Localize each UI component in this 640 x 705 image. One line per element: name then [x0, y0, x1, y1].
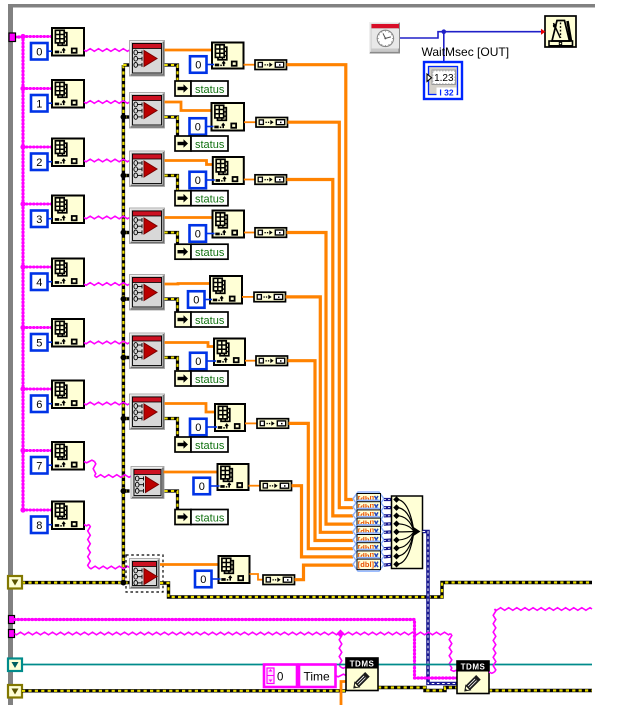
- wire: row 3 to converter: [287, 233, 354, 525]
- wire: bus branch row 0: [23, 36, 52, 38]
- string tunnel 2 (left): [9, 630, 15, 638]
- wire: ms wait value: [400, 32, 542, 38]
- wire: error subVI 0 to status: [165, 65, 182, 89]
- wire: index const row 3: [207, 233, 215, 235]
- TDMS write 2: [457, 661, 489, 694]
- wire: array row 6 to subVI: [84, 402, 130, 405]
- wire: index const row 1: [207, 126, 214, 128]
- index array R0: [212, 43, 244, 69]
- index constant 0 row 3: [190, 225, 207, 242]
- wire: bus branch row 3: [23, 203, 52, 205]
- status indicator row 6: [175, 437, 228, 452]
- wire: element row 7 to build array: [249, 485, 261, 487]
- index constant 0 row 0: [190, 56, 207, 73]
- error tunnel (left, row for S8 chain): [8, 576, 22, 589]
- index constant 0 row 7: [194, 478, 211, 495]
- svg-text:status: status: [195, 374, 225, 386]
- numeric constant 2: [31, 154, 48, 171]
- build array B5: [256, 356, 288, 366]
- wire: const 1 to index L1: [48, 102, 53, 104]
- wire: row 8 to converter: [295, 565, 354, 580]
- svg-text:WaitMsec [OUT]: WaitMsec [OUT]: [422, 45, 510, 59]
- to-dynamic-data converter 0: [353, 492, 384, 506]
- wire: data subVI 4 to index R4: [165, 282, 211, 285]
- wire: index const row 5: [207, 360, 216, 362]
- wire: converter 3 to merge: [384, 522, 392, 525]
- wire: array row 3 to subVI: [84, 216, 130, 219]
- wire: const 8 to index L8: [48, 524, 53, 526]
- wire: converter 1 to merge: [384, 506, 392, 509]
- wire: data subVI 2 to index R2: [165, 161, 213, 165]
- svg-text:[dbl]: [dbl]: [358, 560, 375, 569]
- teal file refnum tunnel (left): [8, 659, 22, 672]
- svg-text:TDMS: TDMS: [461, 663, 486, 672]
- wire: bus branch row 1: [23, 88, 52, 90]
- status indicator row 1: [175, 136, 228, 151]
- wire: error branch row 2: [123, 174, 129, 177]
- WaitMsec [OUT] indicator terminal: [424, 62, 462, 99]
- input tunnel (array of clusters): [9, 33, 16, 42]
- wire: bottom error chain: [22, 689, 346, 692]
- to-dynamic-data converter 2: [353, 508, 384, 522]
- numeric constant 3: [31, 211, 48, 228]
- status indicator row 3: [175, 244, 228, 259]
- wire: bus branch row 5: [23, 327, 52, 329]
- wire: error subVI 6 to status: [165, 419, 182, 445]
- build array B2: [255, 175, 287, 185]
- wire: const 6 to index L6: [48, 403, 53, 405]
- wire: error subVI 4 to status: [165, 299, 182, 320]
- svg-text:status: status: [195, 194, 225, 206]
- svg-text:status: status: [195, 315, 225, 327]
- to-dynamic-data converter 3: [353, 517, 384, 531]
- wire: error subVI 3 to status: [165, 233, 182, 252]
- wire: error subVI 2 to status: [165, 176, 182, 199]
- subVI S2: [130, 151, 165, 187]
- wire: converter 2 to merge: [384, 514, 392, 517]
- wire: row 0 to converter: [287, 65, 354, 500]
- subVI S5: [130, 333, 165, 369]
- wire: dynamic data to TDMS write 2: [423, 532, 458, 684]
- wire: element row 6 to build array: [245, 422, 257, 424]
- wire: const 3 to index L3: [48, 218, 53, 220]
- to-dynamic-data converter 8: [353, 558, 384, 572]
- wire: const 2 to index L2: [48, 161, 53, 163]
- wire: error branch row 4: [123, 297, 129, 300]
- wire: data subVI 3 to index R3: [165, 216, 213, 219]
- index array L1: [52, 80, 84, 108]
- svg-text:I 32: I 32: [439, 88, 453, 98]
- wait until next ms multiple VI: [545, 16, 576, 47]
- string constant Time: [299, 665, 336, 688]
- wire: error branch row 1: [123, 115, 129, 118]
- svg-text:0: 0: [195, 122, 201, 134]
- wire: error branch row 3: [123, 231, 129, 234]
- wire: data subVI 0 to index R0: [165, 49, 213, 52]
- wire: converter 4 to merge: [384, 530, 392, 534]
- wire: element row 5 to build array: [245, 360, 256, 362]
- wire: row 1 to converter: [288, 122, 354, 508]
- numeric constant 5: [31, 334, 48, 351]
- wire: array row 2 to subVI: [84, 159, 130, 162]
- status indicator row 0: [175, 81, 228, 96]
- wire: index const row 6: [207, 426, 217, 428]
- wait ms clock VI: [369, 22, 400, 54]
- wire: error subVI 5 to status: [165, 358, 182, 379]
- wire junction: [442, 29, 447, 34]
- svg-text:0: 0: [277, 672, 283, 684]
- structure frame left border: [8, 4, 13, 705]
- string tunnel 1 (left): [9, 616, 15, 624]
- wire: element row 0 to build array: [244, 64, 256, 66]
- wire: bus branch row 7: [23, 450, 52, 452]
- wire: bus branch row 2: [23, 146, 52, 148]
- status indicator row 5: [175, 371, 228, 386]
- subVI S6: [130, 394, 165, 430]
- wire: array row 0 to subVI: [84, 49, 130, 52]
- svg-text:5: 5: [36, 337, 42, 349]
- index array L6: [52, 381, 84, 409]
- index constant 0 row 8: [195, 571, 212, 588]
- to-dynamic-data converter 6: [353, 541, 384, 555]
- wire: index const row 0: [207, 64, 214, 66]
- wire: element row 2 to build array: [244, 179, 255, 181]
- wire: data subVI 7 to index R7: [164, 471, 218, 474]
- status indicator row 2: [175, 191, 228, 206]
- wire: array row 8 to subVI: [84, 525, 130, 569]
- svg-text:status: status: [195, 440, 225, 452]
- to-dynamic-data converter 7: [353, 549, 384, 563]
- wire: const 0 to index L0: [48, 50, 53, 52]
- wire: bus branch row 8: [23, 509, 52, 511]
- wire: bus branch row 4: [23, 266, 52, 268]
- to-dynamic-data converter 4: [353, 525, 384, 539]
- wire: data subVI 1 to index R1: [165, 102, 212, 111]
- index array R2: [213, 157, 244, 184]
- wire: group name string array: [15, 620, 458, 679]
- index array R4: [210, 276, 242, 304]
- wire: array row 4 to subVI: [84, 283, 130, 286]
- wire: index const row 2: [207, 179, 215, 181]
- svg-text:0: 0: [195, 422, 201, 434]
- wire: array row 7 to subVI: [84, 460, 131, 477]
- index constant 0 row 4: [188, 291, 205, 308]
- wire: error branch row 7: [123, 489, 129, 492]
- merge signals node: [392, 496, 423, 569]
- to-dynamic-data converter 5: [353, 533, 384, 547]
- status indicator row 7: [175, 510, 228, 525]
- build array B4: [254, 292, 286, 302]
- wire: const 5 to index L5: [48, 341, 53, 343]
- svg-text:7: 7: [36, 460, 42, 472]
- svg-text:0: 0: [195, 60, 201, 72]
- ring constant 0: [264, 665, 297, 688]
- index array R8: [219, 556, 250, 583]
- wire: element row 1 to build array: [244, 121, 256, 123]
- wire: error tunnel to subVI S8: [22, 581, 130, 584]
- index array L0: [52, 28, 84, 56]
- error tunnel (bottom left): [8, 685, 22, 698]
- wire: index const row 4: [205, 299, 212, 301]
- wire: bus branch row 6: [23, 388, 52, 390]
- build array B7: [260, 481, 292, 491]
- svg-text:8: 8: [36, 520, 42, 532]
- wire: converter 0 to merge: [384, 498, 392, 501]
- svg-text:0: 0: [36, 46, 42, 58]
- wire: const 4 to index L4: [48, 281, 53, 283]
- build array B1: [256, 118, 288, 128]
- wire: TDMS 2 output up and right: [489, 608, 592, 674]
- wire: pink array bus from input tunnel: [15, 37, 23, 510]
- numeric constant 1: [31, 95, 48, 112]
- svg-text:status: status: [195, 512, 225, 524]
- wire: converter 8 to merge: [384, 563, 392, 567]
- numeric constant 6: [31, 396, 48, 413]
- svg-text:3: 3: [36, 214, 42, 226]
- svg-text:Time: Time: [304, 670, 331, 684]
- subVI S4: [130, 275, 165, 311]
- index array L8: [52, 502, 84, 530]
- svg-text:4: 4: [36, 277, 42, 289]
- build array B0: [255, 60, 287, 70]
- wire: orange from below to TDMS write 1: [341, 682, 346, 705]
- wire: error subVI 1 to status: [165, 117, 182, 144]
- build array B6: [257, 419, 289, 429]
- wire: index const row 8: [212, 578, 221, 580]
- wire: converter 6 to merge: [384, 546, 392, 550]
- wire: converter 7 to merge: [384, 555, 392, 559]
- wire: element row 8 to build array: [250, 574, 264, 580]
- wire: element row 3 to build array: [244, 232, 255, 234]
- wire: row 5 to converter: [288, 361, 354, 541]
- wire: data subVI 6 to index R6: [165, 404, 216, 413]
- index array L2: [52, 139, 84, 167]
- svg-text:0: 0: [199, 481, 205, 493]
- index array R1: [212, 103, 245, 131]
- wire: row 4 to converter: [286, 297, 354, 532]
- svg-text:6: 6: [36, 399, 42, 411]
- build array B8: [263, 575, 295, 585]
- wire: string to TDMS writes: [15, 632, 458, 671]
- index constant 0 row 6: [190, 419, 207, 436]
- svg-text:TDMS: TDMS: [350, 660, 375, 669]
- wire: error branch row 6: [123, 417, 129, 420]
- wire: error S8 out: [160, 583, 592, 598]
- svg-text:0: 0: [195, 175, 201, 187]
- svg-text:2: 2: [36, 157, 42, 169]
- subVI S7: [131, 467, 164, 499]
- wire: const 7 to index L7: [48, 464, 53, 466]
- structure frame top border: [8, 4, 595, 8]
- wire: Time to TDMS write 1: [336, 674, 347, 677]
- index array L4: [52, 259, 84, 287]
- subVI S0: [130, 41, 165, 77]
- wire: error subVI 7 to status: [165, 491, 182, 517]
- svg-text:0: 0: [195, 229, 201, 241]
- to-dynamic-data converter 1: [353, 500, 384, 514]
- wire: element row 4 to build array: [242, 296, 254, 298]
- wire: array row 1 to subVI: [84, 101, 130, 104]
- wire: row 2 to converter: [287, 180, 354, 516]
- index array R7: [218, 464, 249, 490]
- red input arrow: [541, 29, 546, 35]
- svg-text:status: status: [195, 84, 225, 96]
- index constant 0 row 1: [190, 118, 207, 135]
- index array R3: [213, 211, 245, 238]
- status indicator row 4: [175, 312, 228, 327]
- wire: error branch row 0: [123, 63, 129, 66]
- index array R5: [214, 339, 245, 366]
- wire: error cluster bus vertical: [122, 65, 125, 583]
- index array R6: [215, 404, 245, 431]
- wire: array row 5 to subVI: [84, 341, 130, 344]
- wire: converter 5 to merge: [384, 538, 392, 542]
- numeric constant 8: [31, 517, 48, 534]
- svg-text:status: status: [195, 247, 225, 259]
- build array B3: [255, 228, 287, 238]
- wire: row 6 to converter: [289, 423, 354, 548]
- svg-text:1: 1: [36, 98, 42, 110]
- wire: row 7 to converter: [292, 486, 354, 557]
- numeric constant 4: [31, 274, 48, 291]
- wire: data subVI 5 to index R5: [165, 343, 215, 347]
- svg-text:status: status: [195, 139, 225, 151]
- index array L3: [52, 196, 84, 224]
- svg-text:0: 0: [200, 574, 206, 586]
- wire: TDMS file reference: [22, 664, 592, 666]
- numeric constant 7: [31, 457, 48, 474]
- svg-text:1.23: 1.23: [434, 73, 454, 84]
- wire: to WaitMsec indicator: [443, 32, 445, 62]
- wire: index const row 7: [211, 485, 220, 487]
- subVI S1: [130, 93, 165, 129]
- subVI S3: [130, 208, 165, 244]
- wire: error branch row 5: [123, 356, 129, 359]
- index array L5: [52, 319, 84, 347]
- index constant 0 row 5: [190, 353, 207, 370]
- TDMS write 1: [346, 658, 378, 691]
- subVI S8 (selected): [126, 555, 163, 592]
- svg-text:0: 0: [193, 295, 199, 307]
- svg-text:0: 0: [195, 356, 201, 368]
- index array L7: [52, 442, 84, 470]
- wire: data subVI 8 to index R8: [160, 563, 219, 566]
- numeric constant 0: [31, 43, 48, 60]
- index constant 0 row 2: [190, 172, 207, 189]
- wire: string branch to TDMS write 1: [339, 634, 346, 669]
